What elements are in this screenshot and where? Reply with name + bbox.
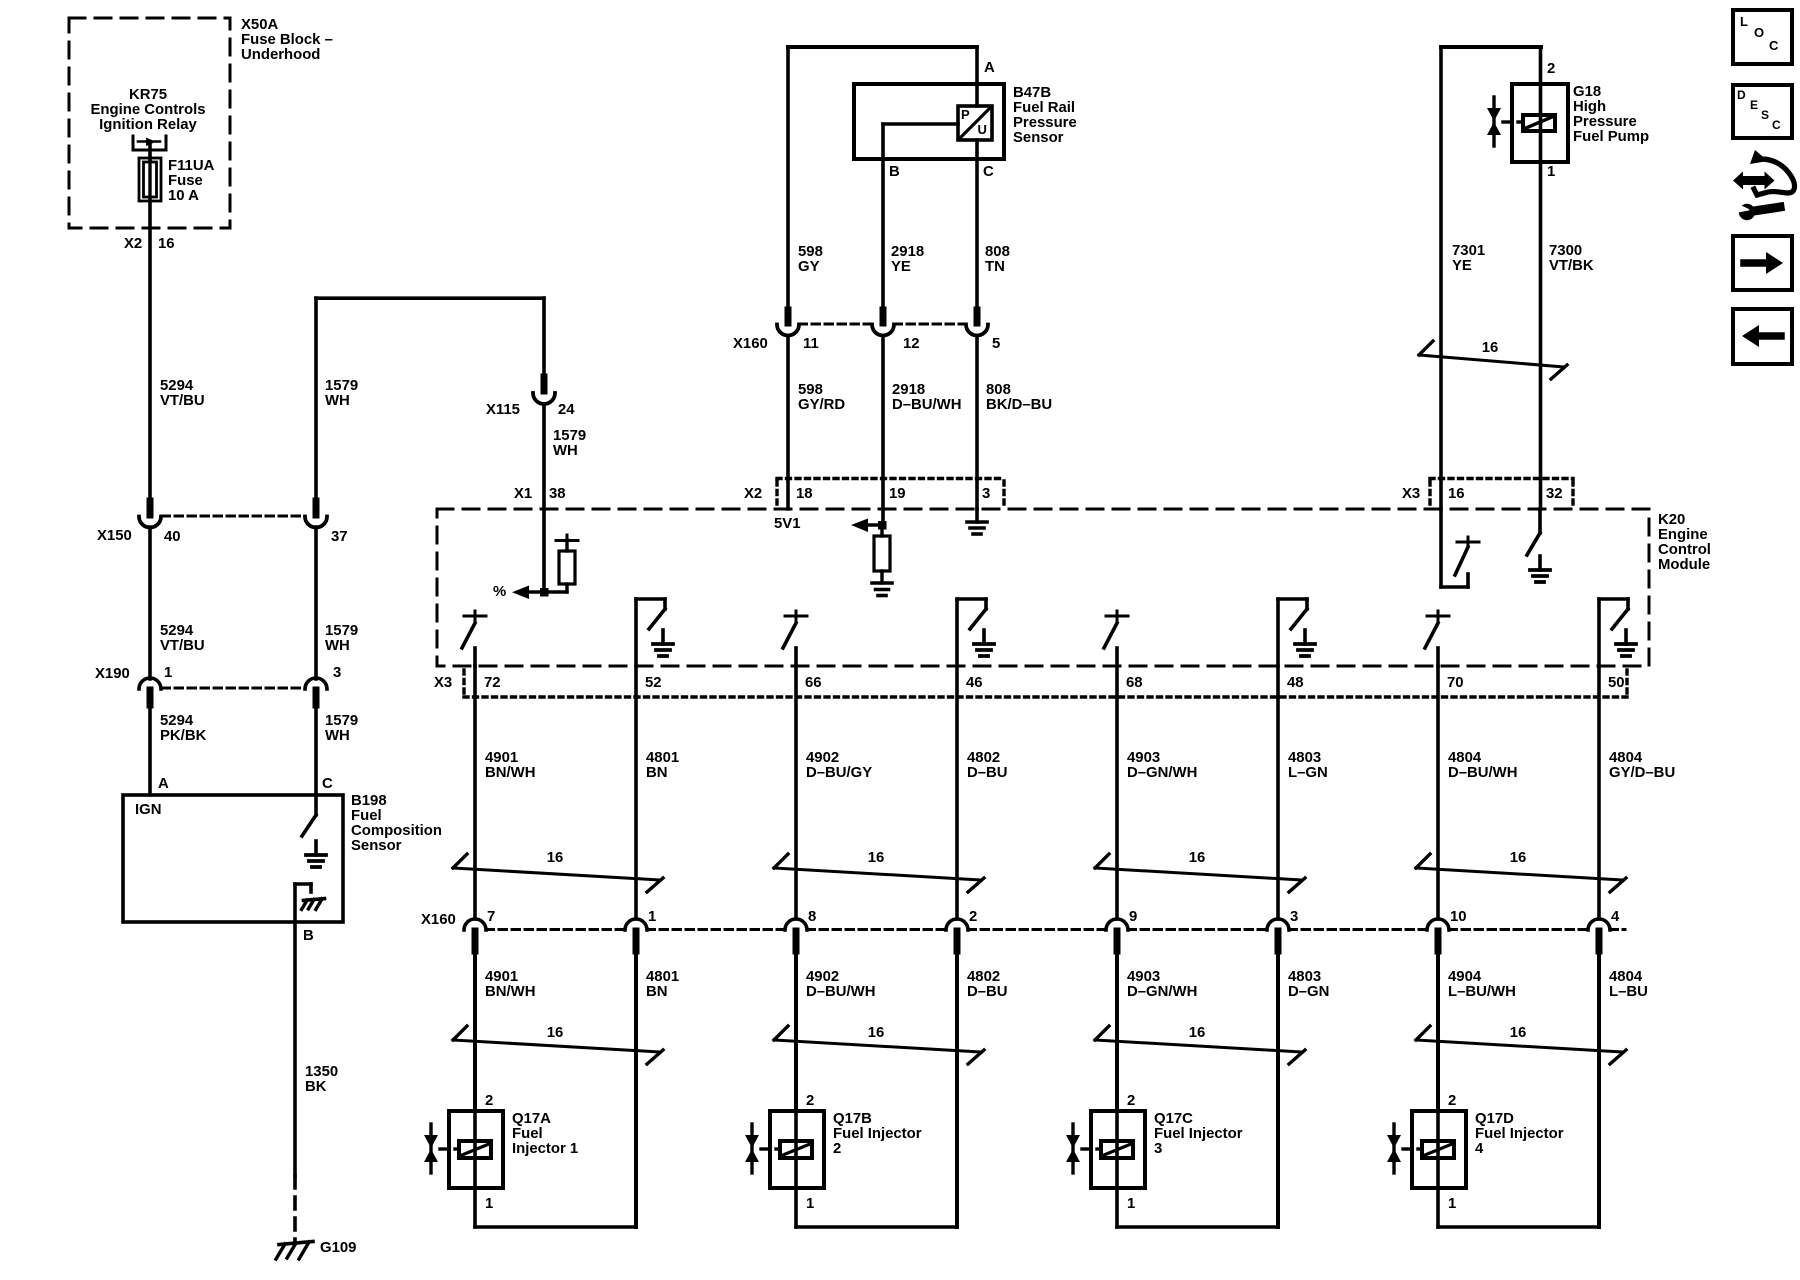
- svg-text:B198: B198: [351, 793, 387, 809]
- wire 2918 D-BU/WH to ECM pin 19: [881, 336, 885, 526]
- connector X160 pin 11: [785, 310, 792, 323]
- ECM internal resistor with supply bar (fuel composition input): [566, 535, 569, 540]
- svg-text:4901: 4901: [485, 750, 518, 766]
- svg-text:598: 598: [798, 382, 823, 398]
- svg-text:Q17D: Q17D: [1475, 1111, 1514, 1127]
- svg-text:16: 16: [1510, 1025, 1527, 1041]
- svg-text:Fuse: Fuse: [168, 173, 203, 189]
- fuse block X50A dashed outline: [69, 18, 230, 228]
- svg-text:D–BU: D–BU: [967, 765, 1008, 781]
- svg-text:2918: 2918: [891, 244, 924, 260]
- svg-text:50: 50: [1608, 675, 1625, 691]
- icon wrench and arrows: [1743, 176, 1765, 185]
- svg-text:1579: 1579: [325, 623, 358, 639]
- ECM internal fuel pump driver pin 16: [1439, 509, 1443, 587]
- wire 4903 X160 to injector pin 2: [1115, 948, 1119, 1111]
- svg-text:WH: WH: [325, 393, 350, 409]
- wire 4803 ECM pin 48 to X160: [1276, 666, 1280, 919]
- svg-text:72: 72: [484, 675, 501, 691]
- wire 4804 ECM pin 50 to X160: [1597, 666, 1601, 919]
- wire injector Q17C return loop: [1115, 1188, 1119, 1227]
- injector Q17C coil: [1101, 1141, 1133, 1158]
- svg-text:18: 18: [796, 486, 813, 502]
- svg-text:1: 1: [1448, 1196, 1456, 1212]
- svg-text:16: 16: [1510, 850, 1527, 866]
- wire 4901 X160 to injector pin 2: [473, 948, 477, 1111]
- svg-text:11: 11: [803, 336, 819, 352]
- svg-text:B: B: [303, 928, 314, 944]
- svg-text:16: 16: [1448, 486, 1465, 502]
- svg-text:A: A: [984, 60, 995, 76]
- wire dashed to G109: [293, 1176, 297, 1242]
- wire fuel pump top loop: [1441, 45, 1541, 49]
- injector Q17A valve symbol: [429, 1124, 432, 1173]
- wire 1579 WH to B198 pin C: [314, 705, 318, 795]
- svg-text:70: 70: [1447, 675, 1464, 691]
- svg-text:BK: BK: [305, 1079, 327, 1095]
- svg-text:4903: 4903: [1127, 969, 1160, 985]
- B47B internal wire pin C: [975, 140, 979, 310]
- svg-text:O: O: [1754, 25, 1764, 40]
- svg-text:WH: WH: [553, 443, 578, 459]
- svg-text:3: 3: [1154, 1141, 1162, 1157]
- svg-text:4802: 4802: [967, 969, 1000, 985]
- svg-text:1579: 1579: [325, 378, 358, 394]
- svg-text:40: 40: [164, 529, 181, 545]
- svg-text:9: 9: [1129, 909, 1137, 925]
- svg-text:D–GN/WH: D–GN/WH: [1127, 984, 1197, 1000]
- svg-text:Q17A: Q17A: [512, 1111, 551, 1127]
- svg-text:X2: X2: [744, 486, 762, 502]
- svg-text:YE: YE: [1452, 258, 1472, 274]
- svg-text:808: 808: [986, 382, 1011, 398]
- connector X160 pin 8: [785, 919, 807, 930]
- svg-text:G18: G18: [1573, 84, 1601, 100]
- G18 solenoid coil: [1523, 115, 1555, 131]
- svg-text:4901: 4901: [485, 969, 518, 985]
- svg-text:3: 3: [982, 486, 990, 502]
- svg-text:2: 2: [1448, 1093, 1456, 1109]
- svg-text:C: C: [1769, 38, 1779, 53]
- injector Q17D coil: [1422, 1141, 1454, 1158]
- ECM internal injector driver (pin 68): [1116, 611, 1119, 616]
- svg-text:5294: 5294: [160, 623, 194, 639]
- B47B internal wire to pin B: [883, 122, 958, 126]
- svg-text:X160: X160: [421, 912, 456, 928]
- ECM internal pull-up resistor pin 19: [866, 523, 882, 526]
- ECM internal injector ground hook (pin 48): [1276, 599, 1280, 666]
- fuel injector Q17A box: [449, 1111, 503, 1188]
- wire gauge 16 marker (lower): [453, 1040, 660, 1052]
- icon DESC box: [1733, 85, 1792, 138]
- svg-text:38: 38: [549, 486, 566, 502]
- connector X160 pin 9: [1106, 919, 1128, 930]
- svg-text:4801: 4801: [646, 969, 679, 985]
- svg-text:4804: 4804: [1448, 750, 1482, 766]
- svg-text:L–BU/WH: L–BU/WH: [1448, 984, 1516, 1000]
- svg-text:WH: WH: [325, 728, 350, 744]
- connector X160 pin 3: [1267, 919, 1289, 930]
- wire injector Q17A return loop: [473, 1188, 477, 1227]
- svg-text:1: 1: [648, 909, 656, 925]
- wire 4801 X160 to injector pin 1: [634, 948, 638, 1227]
- fuel rail pressure sensor B47B box: [854, 84, 1004, 159]
- svg-text:D–BU/WH: D–BU/WH: [806, 984, 876, 1000]
- svg-text:10 A: 10 A: [168, 188, 199, 204]
- svg-text:16: 16: [1482, 340, 1499, 356]
- svg-text:G109: G109: [320, 1240, 356, 1256]
- icon left arrow box: [1733, 309, 1792, 364]
- svg-text:Fuel: Fuel: [351, 808, 382, 824]
- svg-text:2: 2: [969, 909, 977, 925]
- wire 598 GY sensor supply: [786, 47, 790, 310]
- svg-text:E: E: [1750, 98, 1758, 112]
- svg-text:Underhood: Underhood: [241, 47, 320, 63]
- wire gauge 16 marker (upper): [1095, 868, 1302, 880]
- svg-text:D–BU: D–BU: [967, 984, 1008, 1000]
- svg-text:16: 16: [868, 850, 885, 866]
- svg-text:52: 52: [645, 675, 662, 691]
- icon LOC box: [1733, 10, 1792, 64]
- svg-text:D–GN/WH: D–GN/WH: [1127, 765, 1197, 781]
- svg-text:4804: 4804: [1609, 750, 1643, 766]
- svg-text:Composition: Composition: [351, 823, 442, 839]
- svg-text:2: 2: [806, 1093, 814, 1109]
- svg-text:High: High: [1573, 99, 1606, 115]
- wire injector Q17D return loop: [1436, 1188, 1440, 1227]
- ECM internal ground switch pin 32: [1538, 509, 1542, 533]
- ECM internal injector driver (pin 72): [474, 611, 477, 616]
- ECM internal wire to % output: [521, 590, 567, 593]
- svg-text:%: %: [493, 584, 506, 600]
- fuel injector Q17C box: [1091, 1111, 1145, 1188]
- wire 5294 VT/BU X150 to X190: [148, 527, 152, 679]
- connector X160 pin 12: [880, 310, 887, 323]
- wire 1350 BK: [293, 922, 297, 1176]
- svg-text:68: 68: [1126, 675, 1143, 691]
- wire sensor top loop: [788, 45, 977, 49]
- connector X150 pin 37: [313, 501, 320, 515]
- svg-text:WH: WH: [325, 638, 350, 654]
- ECM internal injector driver (pin 66): [795, 611, 798, 616]
- svg-text:4803: 4803: [1288, 969, 1321, 985]
- svg-text:Fuse Block –: Fuse Block –: [241, 32, 333, 48]
- svg-text:C: C: [1772, 118, 1781, 132]
- svg-text:D–BU/WH: D–BU/WH: [892, 397, 962, 413]
- svg-text:Sensor: Sensor: [1013, 130, 1064, 146]
- svg-text:66: 66: [805, 675, 822, 691]
- svg-text:46: 46: [966, 675, 983, 691]
- wire 4901 ECM pin 72 to X160: [473, 666, 477, 919]
- svg-text:24: 24: [558, 402, 575, 418]
- svg-text:5V1: 5V1: [774, 516, 801, 532]
- svg-text:BN: BN: [646, 765, 668, 781]
- svg-text:1579: 1579: [553, 428, 586, 444]
- svg-text:B: B: [889, 164, 900, 180]
- icon right arrow box: [1733, 236, 1792, 290]
- ECM internal injector ground hook (pin 50): [1597, 599, 1601, 666]
- svg-text:5294: 5294: [160, 713, 194, 729]
- connector X190 pin 3: [305, 678, 327, 689]
- svg-text:16: 16: [1189, 1025, 1206, 1041]
- svg-text:BN/WH: BN/WH: [485, 765, 535, 781]
- svg-text:Pressure: Pressure: [1573, 114, 1637, 130]
- injector Q17D valve symbol: [1392, 1124, 1395, 1173]
- svg-text:10: 10: [1450, 909, 1467, 925]
- svg-text:2: 2: [1127, 1093, 1135, 1109]
- ECM internal ground pin 3: [975, 509, 979, 522]
- svg-text:4: 4: [1611, 909, 1620, 925]
- wire 4804 ECM pin 70 to X160: [1436, 666, 1440, 919]
- wire 4802 ECM pin 46 to X160: [955, 666, 959, 919]
- svg-text:19: 19: [889, 486, 906, 502]
- svg-text:IGN: IGN: [135, 802, 161, 818]
- svg-text:1: 1: [806, 1196, 814, 1212]
- wire 4903 ECM pin 68 to X160: [1115, 666, 1119, 919]
- connector X160 pin 10: [1427, 919, 1449, 930]
- svg-text:X1: X1: [514, 486, 532, 502]
- wire 1579 WH X150 to X190: [314, 527, 318, 679]
- svg-text:4802: 4802: [967, 750, 1000, 766]
- connector X150 dashed line: [162, 515, 304, 518]
- svg-text:16: 16: [868, 1025, 885, 1041]
- svg-text:16: 16: [547, 850, 564, 866]
- connector X160 pin 7: [464, 919, 486, 930]
- svg-text:16: 16: [547, 1025, 564, 1041]
- high pressure fuel pump G18 box: [1512, 84, 1568, 162]
- svg-text:Fuel: Fuel: [512, 1126, 543, 1142]
- wire fuse to X150 (5294 VT/BU): [148, 201, 152, 500]
- svg-text:1: 1: [1547, 164, 1555, 180]
- svg-text:1350: 1350: [305, 1064, 338, 1080]
- svg-text:D: D: [1737, 88, 1746, 102]
- svg-text:4902: 4902: [806, 969, 839, 985]
- wire gauge 16 marker (upper): [453, 868, 660, 880]
- svg-text:Pressure: Pressure: [1013, 115, 1077, 131]
- B47B internal wire pin A: [975, 47, 979, 106]
- svg-text:L–BU: L–BU: [1609, 984, 1648, 1000]
- connector X3 dotted frame (injectors): [462, 670, 465, 695]
- wire 4904 X160 to injector pin 2: [1436, 948, 1440, 1111]
- svg-text:1579: 1579: [325, 713, 358, 729]
- svg-text:3: 3: [1290, 909, 1298, 925]
- svg-text:598: 598: [798, 244, 823, 260]
- svg-text:TN: TN: [985, 259, 1005, 275]
- svg-text:GY/RD: GY/RD: [798, 397, 845, 413]
- connector X115 pin 24: [541, 377, 548, 391]
- connector X190 dashed line: [162, 687, 304, 690]
- svg-text:7300: 7300: [1549, 243, 1582, 259]
- svg-text:8: 8: [808, 909, 816, 925]
- wire gauge 16 marker (upper): [774, 868, 981, 880]
- svg-text:16: 16: [158, 236, 175, 252]
- ECM internal injector ground hook (pin 46): [955, 599, 959, 666]
- wire 4804 X160 to injector pin 1: [1597, 948, 1601, 1227]
- svg-text:YE: YE: [891, 259, 911, 275]
- injector Q17C valve symbol: [1071, 1124, 1074, 1173]
- svg-text:GY/D–BU: GY/D–BU: [1609, 765, 1675, 781]
- svg-text:X115: X115: [486, 402, 520, 418]
- fuel injector Q17B box: [770, 1111, 824, 1188]
- svg-text:D–BU/WH: D–BU/WH: [1448, 765, 1518, 781]
- svg-text:D–GN: D–GN: [1288, 984, 1329, 1000]
- svg-text:PK/BK: PK/BK: [160, 728, 207, 744]
- svg-text:808: 808: [985, 244, 1010, 260]
- injector Q17B valve symbol: [750, 1124, 753, 1173]
- svg-text:Q17B: Q17B: [833, 1111, 872, 1127]
- ECM internal injector ground hook (pin 52): [634, 599, 638, 666]
- wire 4803 X160 to injector pin 1: [1276, 948, 1280, 1227]
- svg-text:GY: GY: [798, 259, 820, 275]
- svg-text:F11UA: F11UA: [168, 158, 215, 174]
- svg-text:S: S: [1761, 108, 1769, 122]
- svg-text:C: C: [983, 164, 994, 180]
- B198 internal switch lever (pin C): [314, 795, 318, 815]
- svg-text:Sensor: Sensor: [351, 838, 402, 854]
- svg-text:4: 4: [1475, 1141, 1484, 1157]
- B198 internal chassis ground hook (pin B): [293, 884, 297, 921]
- svg-text:X160: X160: [733, 336, 768, 352]
- wire 4801 ECM pin 52 to X160: [634, 666, 638, 919]
- connector X160 pin 2: [946, 919, 968, 930]
- B198 internal earth ground: [314, 841, 318, 855]
- svg-text:Injector 1: Injector 1: [512, 1141, 578, 1157]
- svg-text:Module: Module: [1658, 557, 1710, 573]
- svg-text:Q17C: Q17C: [1154, 1111, 1193, 1127]
- svg-text:Fuel Pump: Fuel Pump: [1573, 129, 1649, 145]
- svg-text:3: 3: [333, 665, 341, 681]
- svg-text:4902: 4902: [806, 750, 839, 766]
- arrowhead % signal: [512, 586, 529, 600]
- svg-text:VT/BK: VT/BK: [1549, 258, 1594, 274]
- connector X160 pin 4: [1588, 919, 1610, 930]
- svg-text:4904: 4904: [1448, 969, 1482, 985]
- ECM internal ground pin 19: [872, 581, 892, 585]
- svg-text:Engine Controls: Engine Controls: [91, 102, 206, 118]
- svg-text:BK/D–BU: BK/D–BU: [986, 397, 1052, 413]
- svg-text:32: 32: [1546, 486, 1563, 502]
- wire gauge 16 marker (lower): [1416, 1040, 1623, 1052]
- svg-text:VT/BU: VT/BU: [160, 393, 205, 409]
- wire 1579 WH top corner segment: [316, 296, 544, 300]
- connector X150 pin 40: [147, 501, 154, 515]
- svg-text:VT/BU: VT/BU: [160, 638, 205, 654]
- connector X190 pin 1: [139, 678, 161, 689]
- svg-text:X2: X2: [124, 236, 142, 252]
- wire 7300 VT/BK pump to ECM pin 32: [1539, 47, 1543, 509]
- wire gauge 16 marker (lower): [1095, 1040, 1302, 1052]
- wire relay to fuse: [148, 142, 152, 159]
- svg-text:C: C: [322, 776, 333, 792]
- fuel injector Q17D box: [1412, 1111, 1466, 1188]
- svg-text:Fuel Injector: Fuel Injector: [1475, 1126, 1564, 1142]
- svg-text:5: 5: [992, 336, 1000, 352]
- svg-text:Control: Control: [1658, 542, 1711, 558]
- connector X3 dotted frame (fuel pump): [1430, 477, 1573, 480]
- injector Q17B coil: [780, 1141, 812, 1158]
- svg-text:KR75: KR75: [129, 87, 167, 103]
- svg-text:4903: 4903: [1127, 750, 1160, 766]
- wire 4902 X160 to injector pin 2: [794, 948, 798, 1111]
- svg-text:A: A: [158, 776, 169, 792]
- svg-text:Fuel Injector: Fuel Injector: [1154, 1126, 1243, 1142]
- injector Q17A coil: [459, 1141, 491, 1158]
- svg-text:2: 2: [833, 1141, 841, 1157]
- svg-text:4803: 4803: [1288, 750, 1321, 766]
- svg-text:L–GN: L–GN: [1288, 765, 1328, 781]
- wire 5294 PK/BK to B198 pin A: [148, 705, 152, 795]
- svg-text:X3: X3: [434, 675, 452, 691]
- svg-text:48: 48: [1287, 675, 1304, 691]
- svg-text:P: P: [961, 107, 970, 122]
- wire injector Q17B return loop: [794, 1188, 798, 1227]
- svg-text:U: U: [978, 122, 987, 137]
- svg-text:BN/WH: BN/WH: [485, 984, 535, 1000]
- engine control module K20 dashed box: [437, 509, 1649, 666]
- svg-text:Fuel Rail: Fuel Rail: [1013, 100, 1075, 116]
- svg-text:5294: 5294: [160, 378, 194, 394]
- ground G109 chassis ground symbol: [279, 1242, 313, 1245]
- B47B P/U transducer box: [958, 106, 992, 140]
- svg-text:4804: 4804: [1609, 969, 1643, 985]
- wire 4802 X160 to injector pin 1: [955, 948, 959, 1227]
- wire gauge 16 marker (fuel pump): [1419, 355, 1564, 367]
- connector X160 dashed line (sensor): [799, 323, 872, 326]
- svg-text:X150: X150: [97, 528, 132, 544]
- svg-text:1: 1: [1127, 1196, 1135, 1212]
- wire 4902 ECM pin 66 to X160: [794, 666, 798, 919]
- wire 1579 WH X115 to ECM pin 38: [542, 404, 546, 592]
- svg-text:1: 1: [485, 1196, 493, 1212]
- svg-text:X50A: X50A: [241, 17, 278, 33]
- svg-text:37: 37: [331, 529, 348, 545]
- wire 598 GY/RD to ECM pin 18: [786, 336, 790, 510]
- wire gauge 16 marker (lower): [774, 1040, 981, 1052]
- svg-text:Ignition Relay: Ignition Relay: [99, 117, 197, 133]
- fuel composition sensor B198 box: [123, 795, 343, 922]
- svg-text:B47B: B47B: [1013, 85, 1051, 101]
- junction dot pin38 net: [540, 588, 549, 597]
- connector X160 pin 1: [625, 919, 647, 930]
- svg-text:2918: 2918: [892, 382, 925, 398]
- svg-text:16: 16: [1189, 850, 1206, 866]
- svg-text:X3: X3: [1402, 486, 1420, 502]
- svg-text:4801: 4801: [646, 750, 679, 766]
- svg-text:7301: 7301: [1452, 243, 1485, 259]
- svg-text:L: L: [1740, 14, 1748, 29]
- connector X160 dashed line (injectors): [486, 928, 625, 931]
- svg-text:7: 7: [487, 909, 495, 925]
- svg-text:Engine: Engine: [1658, 527, 1708, 543]
- ECM internal injector driver (pin 70): [1437, 611, 1440, 616]
- svg-text:K20: K20: [1658, 512, 1685, 528]
- fuse F11UA symbol: [139, 158, 161, 201]
- svg-text:BN: BN: [646, 984, 668, 1000]
- wire gauge 16 marker (upper): [1416, 868, 1623, 880]
- svg-text:X190: X190: [95, 666, 130, 682]
- wire 808 BK/D-BU to ECM pin 3: [975, 336, 979, 510]
- svg-text:2: 2: [485, 1093, 493, 1109]
- svg-text:12: 12: [903, 336, 920, 352]
- relay KR75 contact symbol: [132, 136, 135, 150]
- svg-text:D–BU/GY: D–BU/GY: [806, 765, 872, 781]
- svg-text:1: 1: [164, 665, 172, 681]
- G18 valve symbol: [1492, 97, 1495, 146]
- connector X160 pin 5: [974, 310, 981, 323]
- svg-text:2: 2: [1547, 61, 1555, 77]
- svg-text:Fuel Injector: Fuel Injector: [833, 1126, 922, 1142]
- connector X2 dotted frame: [777, 477, 1004, 480]
